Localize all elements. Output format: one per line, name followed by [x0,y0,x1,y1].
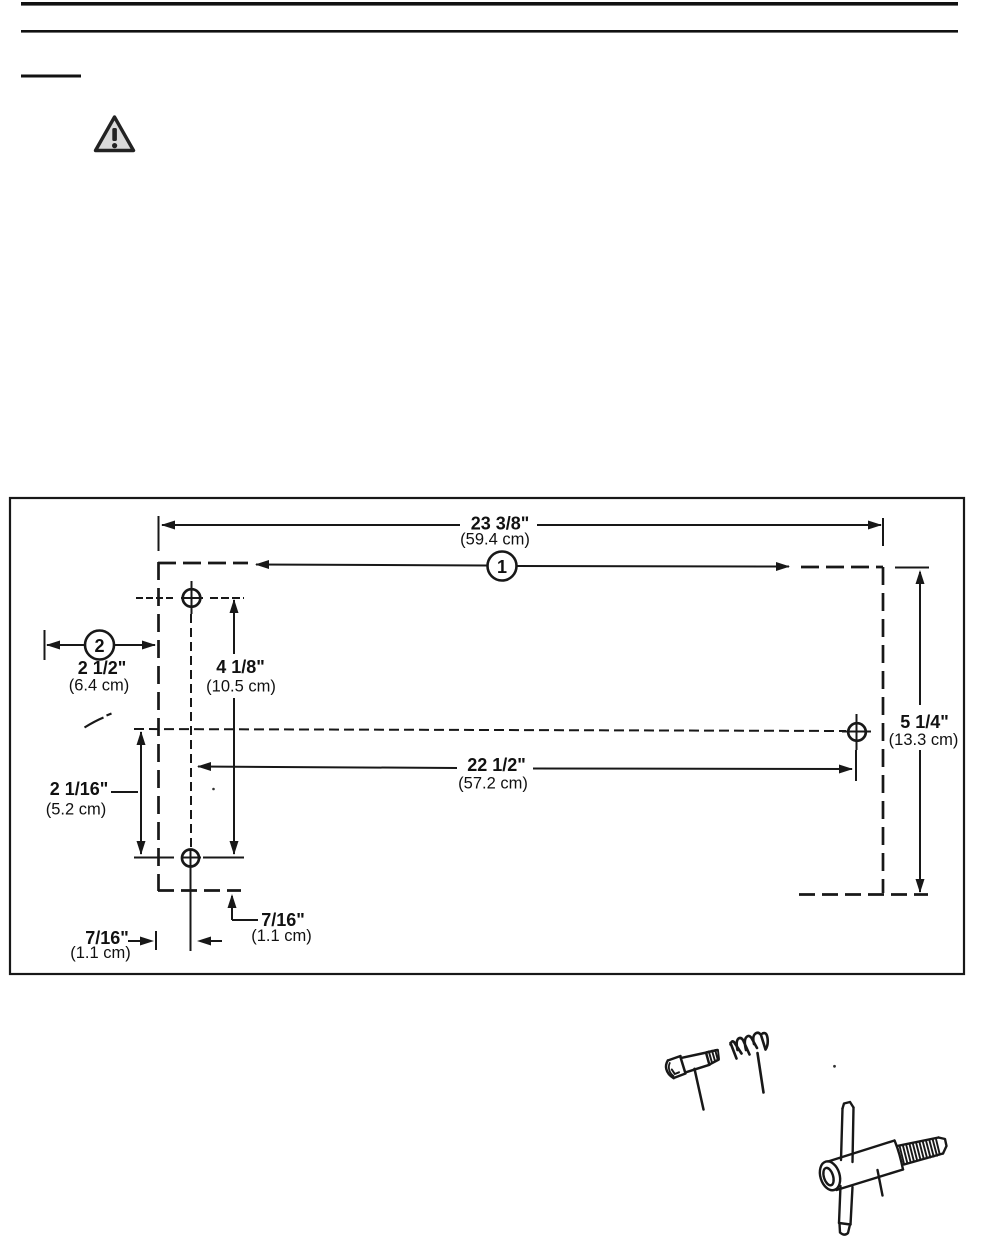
label 2 1/16 connector [111,791,138,793]
paper speck 1 [212,788,215,791]
hole right vertical cross [856,714,858,750]
hole bottom-left cross lines [134,857,174,859]
dimension 23 3/8 line left segment [162,524,460,526]
dashed plate outline: bottom edge left part [158,889,241,892]
rod top tip [843,1102,854,1109]
dimension 5 1/4 vertical upper [919,572,921,705]
header rule second [21,30,958,33]
hole top-left [183,589,201,607]
dashed plate outline: top edge right part [801,566,883,569]
7/16 left: tick at dashed edge [155,931,157,950]
centerline extension below bottom hole [190,867,192,951]
svg-text:(13.3 cm): (13.3 cm) [889,731,959,749]
rod lower [839,1186,853,1225]
outer figure box [10,498,964,974]
callout circle 1 [488,552,517,581]
svg-text:(1.1 cm): (1.1 cm) [70,944,131,962]
22 1/2 arrow right [839,765,853,774]
svg-text:2 1/2": 2 1/2" [78,658,127,678]
5 1/4 arrow down [916,879,925,893]
callout 2 tick [44,630,46,660]
callout 2 line [47,644,85,646]
center line through right hole [842,731,871,733]
warning triangle icon [96,117,134,151]
callout 1 line right [517,565,789,568]
callout 1 line left [256,565,487,566]
5 1/4 arrow up [916,570,925,584]
hole top-left cross lines [136,597,174,599]
arrowhead left 23 3/8 [161,521,175,530]
dashed plate outline: top edge left part [158,562,248,565]
spring sketch [731,1033,768,1093]
threaded stud outline [897,1138,943,1165]
callout 2 arrow left [46,641,60,650]
leader line [878,1170,883,1196]
svg-text:(57.2 cm): (57.2 cm) [458,775,528,793]
2 1/16 arrow up [137,731,146,745]
paper speck 2 [833,1065,836,1068]
dimension 2 1/16 vertical [140,732,142,854]
22 1/2 arrow left [197,762,211,771]
dimension 4 1/8 vertical line lower [233,698,235,854]
svg-text:(1.1 cm): (1.1 cm) [251,927,312,945]
svg-text:2 1/16": 2 1/16" [50,779,109,799]
callout 1 arrow left [255,560,269,569]
svg-text:(5.2 cm): (5.2 cm) [46,801,107,819]
dimension 23 3/8: extension tick left [158,516,160,551]
svg-text:22 1/2": 22 1/2" [467,755,526,775]
stray pen mark [85,714,112,728]
hole right [848,723,866,741]
dashed plate outline: bottom edge right part [799,893,928,896]
svg-text:(59.4 cm): (59.4 cm) [460,531,530,549]
cylinder left end ellipse [816,1159,843,1193]
dimension 4 1/8 vertical line upper [233,600,235,654]
2 1/16 arrow down [137,841,146,855]
svg-text:(6.4 cm): (6.4 cm) [69,677,130,695]
dimension 23 3/8: extension tick right [882,518,884,546]
stud tip [939,1138,947,1154]
svg-text:2: 2 [94,636,104,656]
svg-text:5 1/4": 5 1/4" [900,712,949,732]
dimension 5 1/4: top tick [895,567,929,569]
dimension 22 1/2 line left [198,767,457,769]
dashed plate outline: right edge [882,567,885,893]
4 1/8 arrow down [230,841,239,855]
second arrow pointing left at centerline [208,940,222,942]
callout 1 arrow right [776,562,790,571]
T-handle tool sketch [816,1102,946,1235]
7/16 left arrow line [128,940,141,942]
7/16 right: arrow up with L leader [231,896,233,920]
dimension 5 1/4 vertical lower [919,750,921,892]
callout circle 2 [85,631,114,660]
hole centerline vertical dashed [190,614,192,849]
right hole tick below [855,750,857,781]
callout 2 arrow right [142,641,156,650]
hole bottom-left [182,850,199,867]
short underline left [21,75,81,78]
arrowhead right 23 3/8 [868,521,882,530]
dimension 23 3/8 line right segment [537,524,881,526]
svg-text:4 1/8": 4 1/8" [216,657,265,677]
vertical rod upper [841,1108,854,1163]
rod bottom tip [839,1223,851,1235]
cylinder body [828,1141,903,1191]
dashed plate outline: left edge [157,562,160,891]
cylinder right end [895,1141,904,1170]
svg-text:1: 1 [497,557,507,577]
center horizontal dashed line [134,729,846,731]
header rule top [21,2,958,6]
dimension 22 1/2 line right [533,768,852,771]
screw sketch [666,1050,719,1110]
4 1/8 arrow up [230,599,239,613]
svg-text:(10.5 cm): (10.5 cm) [206,678,276,696]
thread hatching [900,1138,940,1164]
